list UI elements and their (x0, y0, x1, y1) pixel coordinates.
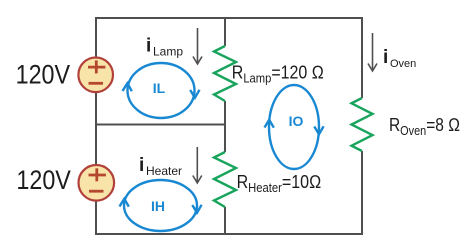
wire middle rail (96, 124, 225, 126)
svg-text:120V: 120V (16, 166, 71, 196)
svg-text:Lamp: Lamp (153, 45, 183, 59)
svg-text:120V: 120V (16, 60, 71, 90)
svg-text:i: i (146, 36, 151, 57)
wire middle branch center (224, 101, 226, 152)
svg-text:IO: IO (289, 113, 304, 129)
wire left rail upper (95, 17, 97, 58)
wire right rail upper (361, 17, 363, 98)
svg-text:IH: IH (151, 198, 165, 214)
arrow iLamp (down) (193, 28, 202, 64)
svg-text:i: i (383, 47, 388, 68)
svg-text:i: i (139, 155, 144, 176)
svg-text:RHeater=10Ω: RHeater=10Ω (237, 171, 322, 196)
resistor RHeater (214, 152, 236, 207)
wire top rail (96, 17, 362, 19)
arrow iHeater (down) (193, 147, 202, 183)
resistor ROven (352, 98, 373, 151)
wire middle branch lower (224, 207, 226, 235)
svg-text:Oven: Oven (390, 58, 416, 70)
mesh current loop IH (120, 180, 202, 231)
svg-text:Heater: Heater (146, 164, 182, 178)
mesh current loop IO (265, 85, 324, 169)
wire bottom rail (95, 233, 362, 235)
svg-text:ROven=8 Ω: ROven=8 Ω (389, 115, 460, 139)
wire middle branch upper (224, 17, 226, 46)
svg-text:RLamp=120 Ω: RLamp=120 Ω (232, 61, 324, 86)
wire left rail middle (95, 92, 97, 166)
resistor RLamp (214, 46, 236, 101)
arrow iOven (down) (368, 33, 377, 71)
svg-text:IL: IL (153, 80, 166, 96)
mesh current loop IL (123, 63, 200, 118)
voltage source V2 120V (79, 165, 115, 201)
voltage source V1 120V (78, 58, 113, 93)
wire right rail lower (361, 151, 363, 235)
wire left rail lower (95, 200, 97, 235)
